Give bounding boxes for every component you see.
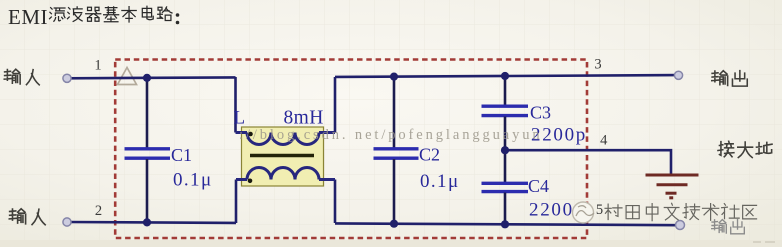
svg-text:C1: C1: [171, 145, 192, 165]
title: EMI filter basic circuit: [8, 5, 179, 29]
svg-text:://blog.csdn. net/pofenglanggu: ://blog.csdn. net/pofenglangguayun: [239, 127, 543, 143]
earth ground symbol: [646, 175, 699, 198]
label: input (top left): [4, 69, 39, 85]
terminal: output 5: [676, 221, 685, 230]
label: connect to earth: [718, 141, 772, 157]
choke bottom winding: [236, 168, 335, 180]
svg-text:4: 4: [600, 133, 608, 149]
terminal: input 1: [63, 74, 71, 82]
no-ERC triangle marker: [118, 68, 137, 85]
wire: bottom riser into choke bottom winding: [235, 180, 238, 224]
wire: choke top-right riser to top rail: [334, 77, 337, 133]
wire: choke bottom-right riser to bottom rail: [334, 180, 337, 224]
svg-text:EMI: EMI: [8, 5, 48, 29]
capacitor C2: [374, 77, 460, 224]
svg-text:0.1μ: 0.1μ: [173, 170, 213, 191]
label: output (top right): [712, 71, 748, 87]
svg-text:8mH: 8mH: [284, 108, 324, 129]
terminal: output 3: [674, 71, 682, 79]
watermark logo circle: [573, 202, 595, 223]
junction: node 1 / C1 top: [143, 74, 151, 82]
EMI filter boundary box (red dashed): [115, 60, 587, 239]
svg-text:C3: C3: [530, 103, 551, 123]
wire: top rail from input 1 to choke: [67, 76, 236, 80]
svg-text:2: 2: [95, 203, 102, 219]
junction: C3 top: [501, 72, 509, 80]
svg-text:5: 5: [596, 202, 603, 218]
corner squiggle: [753, 241, 775, 243]
svg-text:C4: C4: [528, 176, 549, 196]
svg-text:0.1μ: 0.1μ: [420, 171, 460, 192]
capacitor C1: [125, 77, 213, 223]
svg-text:1: 1: [94, 58, 101, 74]
choke polarity dot top: [248, 132, 253, 137]
junction: C2 top: [390, 73, 398, 81]
terminal: input 2: [63, 218, 71, 226]
junction: C2 bottom: [390, 220, 398, 228]
common-mode choke L1 body: [242, 127, 324, 186]
svg-text:2200: 2200: [529, 200, 574, 221]
choke top winding: [236, 133, 336, 145]
wire: top rail from choke to output 3: [335, 75, 678, 77]
label: output (bottom right, grey): [712, 220, 745, 234]
wire: top riser into choke top winding: [234, 77, 237, 133]
label: input (bottom left): [9, 209, 45, 225]
capacitor C3: [482, 77, 588, 151]
svg-text:C2: C2: [419, 145, 440, 165]
junction: C1 bottom: [143, 218, 151, 226]
junction: C4 bottom: [501, 220, 509, 228]
wire: bottom rail from input 2 to choke: [67, 221, 236, 224]
wire: bottom rail from choke to output 5: [335, 223, 680, 225]
choke polarity dot bottom: [248, 179, 253, 184]
junction: C3/C4 node 4: [501, 146, 509, 154]
choke core bar: [250, 154, 314, 157]
wire: node 4 earth branch: [505, 150, 671, 173]
svg-text:L: L: [234, 108, 246, 129]
capacitor C4: [482, 150, 574, 223]
watermark: community name (outlined grey): [605, 203, 757, 220]
svg-text:3: 3: [594, 57, 601, 73]
